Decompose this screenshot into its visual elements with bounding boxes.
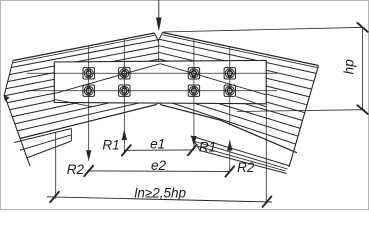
svg-text:e2: e2 bbox=[151, 158, 167, 173]
svg-text:ln≥2,5hp: ln≥2,5hp bbox=[134, 185, 186, 200]
svg-text:hp: hp bbox=[342, 59, 357, 75]
svg-text:R1: R1 bbox=[102, 138, 119, 153]
svg-text:R1: R1 bbox=[199, 139, 216, 154]
svg-text:e1: e1 bbox=[150, 136, 165, 151]
svg-text:R2: R2 bbox=[237, 160, 255, 175]
svg-text:R2: R2 bbox=[67, 162, 85, 177]
